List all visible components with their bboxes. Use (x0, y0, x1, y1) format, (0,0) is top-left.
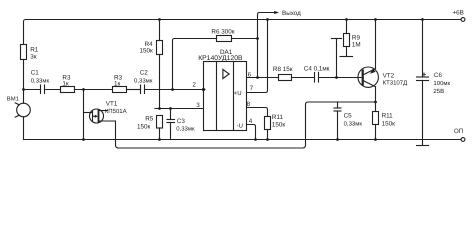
svg-text:КР140УД120В: КР140УД120В (198, 55, 243, 62)
svg-text:3: 3 (196, 102, 200, 109)
resistor R1 (21, 45, 27, 60)
resistor R4 (158, 18, 161, 21)
capacitor C2 (140, 85, 142, 94)
pin 8 wire to R11 (247, 108, 268, 117)
svg-text:1к: 1к (62, 80, 69, 87)
resistor R11 (bias) (265, 117, 271, 130)
svg-text:C4 0,1мк: C4 0,1мк (304, 65, 330, 72)
terminal ОП (461, 138, 465, 142)
svg-text:ОП: ОП (454, 128, 464, 135)
svg-text:-U: -U (237, 123, 243, 130)
svg-text:3к: 3к (30, 53, 37, 60)
transistor VT2 (358, 67, 378, 87)
svg-text:VT2: VT2 (383, 73, 395, 80)
capacitor C4 (314, 73, 316, 83)
svg-text:BM1: BM1 (7, 96, 19, 103)
pin 2 diamond (201, 87, 205, 91)
resistor R3 (first) (61, 87, 75, 93)
svg-text:Выход: Выход (282, 10, 301, 17)
svg-text:150к: 150к (272, 121, 286, 128)
wire R6 to output node (232, 38, 258, 40)
wire stub with bar above C4 node (336, 39, 338, 78)
svg-text:8: 8 (247, 101, 251, 108)
svg-text:2: 2 (192, 81, 196, 88)
svg-text:VT1: VT1 (106, 101, 118, 108)
wire BM1 to bottom rail (23, 117, 25, 140)
wire VT1 drain to pin3 net (99, 110, 108, 112)
svg-text:R6 300к: R6 300к (211, 29, 234, 36)
resistor R8 (279, 75, 292, 81)
wire R3a to R3b (75, 89, 113, 91)
wire R4 to pin3 net (crosses signal wire) (159, 55, 161, 109)
resistor R5 (157, 116, 163, 129)
svg-text:25В: 25В (433, 88, 444, 95)
wire left column corner down to R1 (24, 20, 26, 45)
capacitor C1 (40, 85, 42, 94)
resistor R9 (345, 18, 348, 21)
svg-text:150к: 150к (140, 48, 154, 55)
svg-text:C5: C5 (344, 113, 353, 120)
svg-text:C3: C3 (177, 118, 186, 125)
wire R3b to C2 (127, 89, 141, 91)
svg-text:1М: 1М (352, 42, 361, 49)
resistor R6 (217, 36, 232, 42)
svg-text:C6: C6 (434, 72, 443, 79)
svg-text:R11: R11 (382, 113, 394, 120)
svg-text:0,33мк: 0,33мк (176, 126, 195, 133)
svg-text:C1: C1 (31, 70, 40, 77)
svg-text:0,33мк: 0,33мк (134, 77, 153, 84)
bottom common rail (24, 139, 462, 141)
svg-text:R11: R11 (272, 114, 284, 121)
svg-text:R5: R5 (145, 116, 154, 123)
wire C4 to VT2 base (319, 77, 362, 79)
node feedback junction dot (171, 88, 174, 91)
svg-text:1к: 1к (114, 80, 121, 87)
microphone BM1 (17, 103, 31, 117)
svg-text:150к: 150к (382, 120, 396, 127)
svg-text:R8 15к: R8 15к (273, 66, 293, 73)
wire R1 to mic node (23, 60, 25, 104)
capacitor C6 (electrolytic) (421, 18, 424, 21)
svg-text:0,33мк: 0,33мк (344, 120, 363, 127)
wire VT2 emitter to +6V rail (375, 20, 377, 69)
wire C2 to pin 2 of DA1 (145, 89, 204, 91)
node mic junction dot (22, 88, 25, 91)
wire output vertical (pin6 / feedback / Выход) (258, 13, 275, 78)
capacitor C3 (169, 107, 172, 110)
capacitor C5 (337, 102, 339, 108)
wire VT1 source (99, 102, 376, 148)
svg-text:R9: R9 (352, 35, 361, 42)
pin 6 wire (247, 77, 279, 79)
wire R8 to C4 (292, 77, 315, 79)
wire +6V top rail (26, 19, 462, 21)
pin 7 wire to +6V (247, 20, 268, 93)
svg-text:150к: 150к (137, 123, 151, 130)
resistor R11 (collector load) (375, 102, 377, 112)
svg-text:КТ3107Д: КТ3107Д (383, 80, 408, 87)
node VT1 gate tap dot (82, 88, 85, 91)
svg-text:4: 4 (249, 118, 253, 125)
op-amp DA1 (204, 62, 247, 131)
terminal +6V (461, 18, 465, 22)
svg-text:100мк: 100мк (433, 80, 450, 87)
wire signal to C1 (24, 89, 41, 91)
svg-text:C2: C2 (140, 70, 149, 77)
svg-text:+U: +U (234, 90, 242, 97)
feedback wire from pin2 node up and right to R6 (173, 39, 217, 90)
wire VT2 collector down (375, 87, 377, 102)
svg-text:+6В: +6В (453, 10, 464, 17)
svg-text:0,33мк: 0,33мк (31, 77, 50, 84)
svg-text:КП501А: КП501А (105, 108, 127, 115)
arrow Выход (274, 11, 279, 14)
wire C1 to R3a (45, 89, 61, 91)
svg-text:R1: R1 (30, 46, 39, 53)
svg-text:6: 6 (248, 71, 252, 78)
transistor VT1 (90, 109, 104, 123)
resistor R3 (second) (113, 87, 127, 93)
svg-text:7: 7 (250, 85, 254, 92)
pin 4 wire to rail (247, 125, 256, 140)
wire VT1 gate drop (83, 90, 85, 140)
